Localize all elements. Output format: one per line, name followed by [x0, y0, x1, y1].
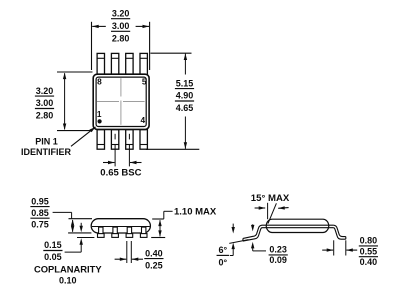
svg-text:0.40: 0.40	[145, 248, 163, 258]
svg-text:0.95: 0.95	[31, 196, 49, 206]
svg-text:6°: 6°	[218, 245, 227, 255]
svg-text:2.80: 2.80	[36, 111, 54, 121]
top view: dimension text 3.20 / 3.00 / 2.80 (vertical)	[35, 86, 54, 121]
top view: right vertical dimension 5.15/4.90/4.65 extension lines and arrows	[146, 53, 199, 149]
front view: dimension 0.95/0.85/0.75 with leader and arrows	[30, 196, 92, 233]
pin 1 identifier label and leader arrow	[21, 127, 96, 157]
svg-text:IDENTIFIER: IDENTIFIER	[21, 147, 72, 157]
side view: lead frame strip through body with left and right gull-wing bends	[243, 225, 346, 241]
svg-text:0.85: 0.85	[31, 208, 49, 218]
svg-text:PIN 1: PIN 1	[35, 136, 58, 146]
svg-text:0.75: 0.75	[31, 220, 49, 230]
svg-text:3.00: 3.00	[112, 21, 130, 31]
svg-text:0.10: 0.10	[59, 275, 77, 285]
svg-text:15° MAX: 15° MAX	[251, 193, 290, 204]
svg-text:0.25: 0.25	[145, 260, 163, 270]
pin 1 identifier dot	[98, 119, 102, 123]
svg-text:0.55: 0.55	[360, 246, 378, 256]
svg-text:4: 4	[140, 115, 145, 125]
svg-text:0.65 BSC: 0.65 BSC	[100, 167, 141, 178]
front view: dimension 0.15/0.05 with leader and arrow	[43, 238, 83, 262]
top view: center crosshair lines	[97, 78, 145, 125]
svg-text:0.80: 0.80	[360, 236, 378, 246]
svg-text:1.10 MAX: 1.10 MAX	[174, 207, 217, 218]
svg-text:0.40: 0.40	[360, 257, 378, 267]
svg-text:1: 1	[97, 109, 102, 119]
top view: dimension text 5.15 / 4.90 / 4.65	[175, 78, 194, 113]
top view: horizontal dimension 3.20/3.00/2.80 extension lines and arrows	[92, 22, 150, 70]
front view: package body	[91, 219, 150, 233]
side view: dimension 0.23/0.09 lead thickness (arrows, leader, text)	[251, 224, 288, 265]
front view: seating plane / coplanarity line	[77, 237, 94, 239]
front view: coplanarity label	[34, 264, 102, 286]
svg-text:2.80: 2.80	[112, 34, 130, 44]
svg-text:3.00: 3.00	[36, 98, 54, 108]
top view: pin leads (8 gull-wing pins, top and bottom rows)	[97, 53, 147, 149]
top view: left vertical dimension 3.20/3.00/2.80 extension lines and arrows	[57, 72, 93, 131]
top view: dimension text 3.20 / 3.00 / 2.80 (horizontal)	[111, 8, 130, 43]
side view: 6deg/0deg foot angle dimension (label, leader, arrows, angle line)	[217, 224, 249, 268]
svg-text:0.15: 0.15	[44, 240, 62, 250]
svg-text:5.15: 5.15	[176, 78, 194, 88]
svg-text:3.20: 3.20	[36, 86, 54, 96]
top view: package body outline (outer and inner)	[93, 74, 149, 129]
top view: 0.65 BSC pitch dimension (centerlines and arrows)	[103, 134, 142, 167]
side view: dimension 0.80/0.55/0.40 foot length (extension lines, arrows, text)	[322, 236, 378, 268]
svg-text:4.90: 4.90	[176, 91, 194, 101]
svg-text:0.05: 0.05	[44, 252, 62, 262]
side view: package body	[266, 219, 329, 232]
svg-text:0.23: 0.23	[269, 245, 287, 255]
front view: dimension 0.40/0.25 lead width (extension lines, arrows, text)	[115, 241, 164, 270]
front view: four gull-wing leads with feet	[98, 227, 148, 237]
front view: dimension 1.10 MAX with leader and arrows	[151, 207, 217, 238]
svg-text:5: 5	[142, 76, 147, 86]
svg-text:3.20: 3.20	[112, 8, 130, 18]
svg-text:4.65: 4.65	[176, 103, 194, 113]
side view: 15 deg MAX angle callout (label, reference lines, arrows)	[251, 193, 290, 224]
svg-text:8: 8	[97, 76, 102, 86]
svg-text:COPLANARITY: COPLANARITY	[34, 264, 102, 275]
svg-text:0.09: 0.09	[269, 255, 287, 265]
svg-text:0°: 0°	[218, 258, 227, 268]
